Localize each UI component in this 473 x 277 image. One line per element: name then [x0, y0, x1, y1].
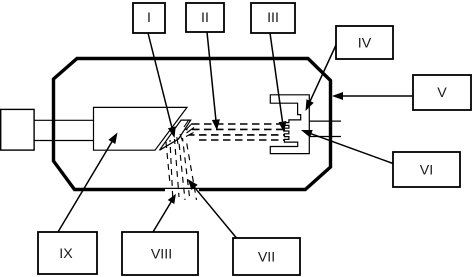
arrow IV to collector arm [306, 45, 337, 111]
svg-text:VI: VI [420, 163, 433, 179]
svg-text:IX: IX [59, 246, 73, 262]
sputter rays at target face [177, 120, 194, 145]
svg-text:IV: IV [358, 36, 372, 52]
label box VIII [122, 232, 198, 275]
label box V [413, 75, 471, 110]
label box IX [38, 232, 97, 274]
thin aperture section of bottom wall [165, 187, 199, 189]
collector bracket with comb aperture [270, 95, 309, 154]
arrow VIII to fan at wall [153, 194, 176, 232]
scattered particle fan (dashed) [166, 138, 197, 203]
arrow III to comb [270, 33, 286, 133]
label box IV [336, 26, 393, 59]
ion beam dashed lines [186, 124, 285, 140]
arrow VII to fan [188, 179, 237, 238]
svg-text:II: II [201, 10, 209, 26]
arrow IX to gun body [58, 133, 118, 233]
tilted target plate [160, 120, 191, 150]
left connector box [1, 109, 34, 150]
svg-text:VII: VII [258, 250, 275, 266]
vacuum chamber outline with beam aperture in bottom wall [54, 59, 331, 190]
svg-text:VIII: VIII [151, 247, 172, 263]
arrow V to chamber wall [332, 92, 413, 100]
label box I [133, 3, 165, 33]
feedthrough line upper [309, 120, 341, 122]
gun stem wire top [34, 119, 94, 121]
label box VII [233, 238, 300, 275]
feedthrough line lower [309, 136, 341, 138]
label box VI [393, 152, 460, 187]
arrow VI to collector cup [301, 130, 393, 164]
svg-text:I: I [147, 10, 151, 26]
svg-text:V: V [437, 85, 447, 101]
svg-text:III: III [267, 10, 279, 26]
label box III [251, 3, 295, 33]
arrow I to target [148, 33, 176, 138]
gun stem wire bottom [34, 140, 94, 142]
label box II [186, 3, 224, 32]
ion gun body [94, 107, 188, 150]
arrow II to beam [207, 32, 220, 131]
